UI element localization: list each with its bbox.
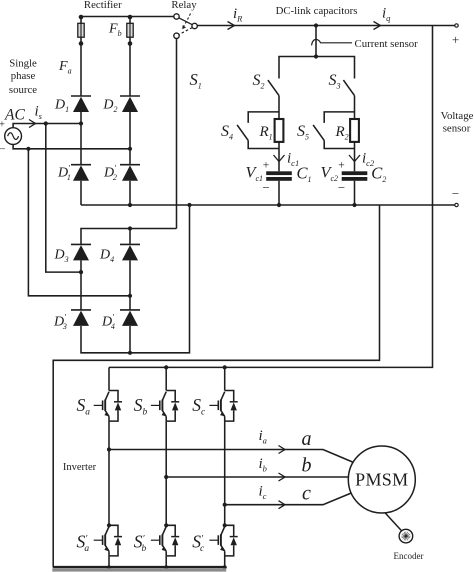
label i_R (233, 6, 243, 24)
label i_a (259, 428, 267, 446)
label S5 (297, 123, 309, 142)
igbt Sb (151, 391, 179, 422)
svg-text:AC: AC (4, 107, 25, 124)
label - terminal (452, 186, 459, 201)
diode D3 (71, 244, 91, 260)
label i_b (259, 456, 267, 474)
svg-text:+: + (338, 160, 345, 172)
svg-text:D′1: D′1 (57, 164, 71, 183)
current sensor hook (312, 39, 321, 45)
relay motion dashed arrow (182, 14, 190, 30)
igbt Sap (94, 525, 122, 556)
junction Sbp top (164, 523, 168, 527)
wire D4 to D4p (129, 260, 131, 310)
junction D4-cathode-link (128, 226, 132, 230)
shaft to encoder (385, 513, 401, 531)
junction current-sensor tap (314, 23, 318, 27)
switch S4 (237, 125, 248, 140)
relay open throw dashed (179, 28, 192, 35)
wire C2 to neg bus (354, 181, 356, 205)
relay closed blade (179, 18, 193, 25)
junction negrail-negbus (0, 0, 1, 1)
svg-text:+: + (0, 120, 5, 131)
encoder (399, 529, 413, 543)
label - C2 (338, 180, 345, 195)
junction phase c (223, 503, 227, 507)
wire leg b lower (165, 556, 167, 567)
wire leg c middle (224, 421, 226, 525)
svg-text:D′4: D′4 (101, 313, 115, 332)
diode D3p (71, 310, 91, 326)
junction source-top inverter tap (44, 121, 48, 125)
wire phase c (225, 493, 353, 505)
wire D4p anode (129, 326, 131, 353)
capacitor C1 (266, 171, 292, 181)
svg-text:c: c (302, 483, 311, 505)
wire S4 branch bottom (248, 140, 279, 148)
diode D1 (71, 96, 91, 112)
arrow i_c1 (274, 155, 285, 162)
arrow i_c2 (349, 155, 360, 162)
svg-text:phase: phase (11, 70, 36, 82)
label V_c1 (246, 163, 264, 184)
svg-text:DC-link capacitors: DC-link capacitors (276, 5, 358, 17)
wire D1p to neg bus (80, 181, 82, 205)
junction C2-negbus (352, 203, 356, 207)
diode D4 (120, 244, 140, 260)
bottom grey strip (52, 568, 226, 571)
junction D2p-negbus (128, 203, 132, 207)
svg-text:D′2: D′2 (103, 164, 117, 183)
wire D2 to D2p (129, 112, 131, 165)
svg-text:Encoder: Encoder (394, 551, 424, 561)
wire phase a (109, 450, 353, 463)
svg-text:D′3: D′3 (53, 313, 67, 332)
junction D4 anode (128, 294, 132, 298)
label i_c2 (362, 151, 375, 169)
wire Fa to D1 (80, 44, 82, 97)
label C1 (297, 164, 312, 185)
junction D3 anode (79, 270, 83, 274)
label D1 (54, 98, 69, 115)
switch S2 (268, 80, 279, 96)
junction negdrop-negbus (187, 203, 191, 207)
svg-text:−: − (452, 186, 459, 201)
wire source top (13, 124, 81, 128)
svg-text:−: − (338, 180, 345, 195)
junction Sbp botbus (164, 565, 168, 569)
label S1 (190, 70, 202, 91)
svg-text:a: a (302, 428, 312, 450)
resistor R2 (350, 119, 359, 142)
label Rectifier (84, 0, 122, 11)
terminal + circle (455, 24, 458, 27)
label Fb (108, 22, 122, 39)
wire negative bus (81, 204, 457, 206)
wire phase b (166, 476, 348, 478)
label D4p (101, 313, 115, 332)
resistor R1 (275, 119, 284, 142)
wire top DC bus (197, 25, 456, 27)
arrow i_a (279, 446, 286, 454)
junction C1-negbus (277, 203, 281, 207)
svg-text:Relay: Relay (171, 0, 197, 11)
svg-text:Rectifier: Rectifier (84, 0, 122, 11)
label C2 (371, 164, 386, 185)
label + C1 (263, 160, 270, 172)
svg-text:PMSM: PMSM (355, 470, 408, 490)
junction posrail-topbus (0, 0, 1, 1)
relay contact bottom-left (174, 33, 179, 38)
igbt Sa (94, 391, 122, 422)
wire S5 branch bottom (324, 140, 354, 148)
label + C2 (338, 160, 345, 172)
wire R1 to C1 (278, 142, 280, 171)
switch S5 (313, 125, 324, 140)
wire C1 to neg bus (278, 181, 280, 205)
label a (302, 428, 312, 450)
label Sa (77, 395, 91, 418)
label Scp (192, 532, 205, 555)
capacitor C2 (342, 171, 368, 181)
svg-text:Voltage: Voltage (441, 110, 474, 122)
ac source (5, 128, 22, 145)
wire leg c lower (224, 556, 226, 567)
label i_q (382, 5, 391, 23)
arrow i_R (228, 22, 235, 30)
label PMSM (355, 470, 408, 490)
wire S2 to R1 (278, 96, 280, 119)
junction phase b (164, 475, 168, 479)
label + terminal (452, 32, 459, 47)
wire leg b upper (165, 367, 167, 390)
label S3 (329, 72, 341, 91)
wire S3 to R2 (354, 96, 356, 119)
fuse Fb (127, 15, 133, 46)
label Inverter (63, 462, 97, 473)
wire inverter bottom bus (53, 566, 225, 568)
svg-text:+: + (452, 32, 459, 47)
svg-text:Current sensor: Current sensor (355, 38, 419, 50)
wire Fb to D2 (129, 44, 131, 97)
igbt Sbp (151, 525, 179, 556)
wire leg a middle (108, 421, 110, 525)
junction D2 anode (128, 147, 132, 151)
junction bracket mid (314, 54, 318, 58)
label Relay (171, 0, 197, 11)
wire source-top to D3 anode (46, 124, 81, 273)
label b (302, 455, 312, 477)
label + source (0, 120, 5, 131)
label S2 (253, 72, 265, 91)
label D2p (103, 164, 117, 183)
wire D4 cathode (129, 229, 131, 245)
label S4 (221, 123, 233, 142)
wire D3p anode link (81, 205, 190, 353)
wire leg b middle (165, 421, 167, 525)
junction Sap botbus (107, 565, 111, 569)
wire relay S1 drop (176, 39, 178, 229)
label R1 (259, 124, 273, 142)
wire S2-S3 bracket (279, 57, 355, 79)
junction Sc-posbus (223, 365, 227, 369)
arrow i_s (29, 120, 36, 128)
svg-text:sensor: sensor (443, 122, 471, 134)
wire S4 branch top (248, 112, 279, 123)
wire negative rail to inverter (53, 205, 379, 568)
label Voltage sensor (441, 110, 474, 135)
label D2 (102, 98, 117, 115)
igbt Sc (209, 391, 237, 422)
diode D2p (120, 165, 140, 181)
arrow i_c (279, 501, 286, 509)
label Single phase source (9, 58, 37, 97)
label - source (0, 144, 6, 156)
junction source-bottom inverter tap (26, 147, 30, 151)
svg-text:Inverter: Inverter (63, 462, 97, 473)
label Sbp (134, 532, 147, 555)
label D3 (54, 248, 69, 265)
svg-text:+: + (263, 160, 270, 172)
label D4 (99, 248, 114, 265)
arrow i_b (279, 473, 286, 481)
motor PMSM (348, 446, 415, 513)
label Sc (192, 395, 206, 418)
label c (302, 483, 311, 505)
relay contact top-left (174, 14, 179, 19)
label DC-link capacitors (276, 5, 358, 17)
wire S5 branch top (324, 112, 354, 123)
label - C1 (262, 180, 269, 195)
relay contact pole (192, 23, 197, 28)
label D3p (53, 313, 67, 332)
label i_c (259, 484, 267, 502)
junction D1 anode (79, 121, 83, 125)
label Sb (134, 395, 148, 418)
switch S3 (343, 80, 354, 96)
diode D4p (120, 310, 140, 326)
wire source bottom (13, 145, 130, 149)
label Current sensor (355, 38, 419, 50)
svg-text:−: − (262, 180, 269, 195)
junction D4p-anode-link (128, 351, 132, 355)
junction Scp top (223, 523, 227, 527)
fuse Fa (78, 15, 84, 46)
leader current sensor (320, 42, 352, 44)
wire leg c upper (224, 367, 226, 390)
igbt Scp (209, 525, 237, 556)
terminal - circle (455, 203, 458, 206)
diode D2 (120, 96, 140, 112)
label Encoder (394, 551, 424, 561)
svg-text:−: − (0, 144, 6, 156)
svg-text:b: b (302, 455, 312, 477)
label Sap (77, 532, 90, 555)
junction phase a (107, 447, 111, 451)
junction Sap top (107, 523, 111, 527)
wire leg a lower (108, 556, 110, 567)
arrow i_q (374, 22, 381, 30)
diode D1p (71, 165, 91, 181)
wire D2p to neg bus (129, 181, 131, 205)
label Fa (58, 59, 72, 76)
label i_c1 (287, 151, 299, 169)
junction Sb-posbus (164, 365, 168, 369)
wire leg a upper (108, 367, 110, 390)
svg-text:Single: Single (9, 58, 37, 70)
label i_s (35, 104, 43, 122)
wire R2 to C2 (354, 142, 356, 171)
label AC (4, 107, 25, 124)
wire D3-D4 cathode link (81, 229, 177, 245)
wire positive rail (109, 26, 433, 368)
label D1p (57, 164, 71, 183)
wire D1 to D1p (80, 112, 82, 165)
wire current sensor drop (315, 26, 317, 57)
wire D3 to D3p (80, 260, 82, 310)
label V_c2 (321, 163, 339, 184)
wire fuse bus (81, 16, 174, 18)
svg-text:source: source (9, 84, 37, 96)
junction Scp botbus (223, 565, 227, 569)
wire source-bottom to D4 anode (28, 149, 130, 296)
label R2 (335, 124, 349, 142)
